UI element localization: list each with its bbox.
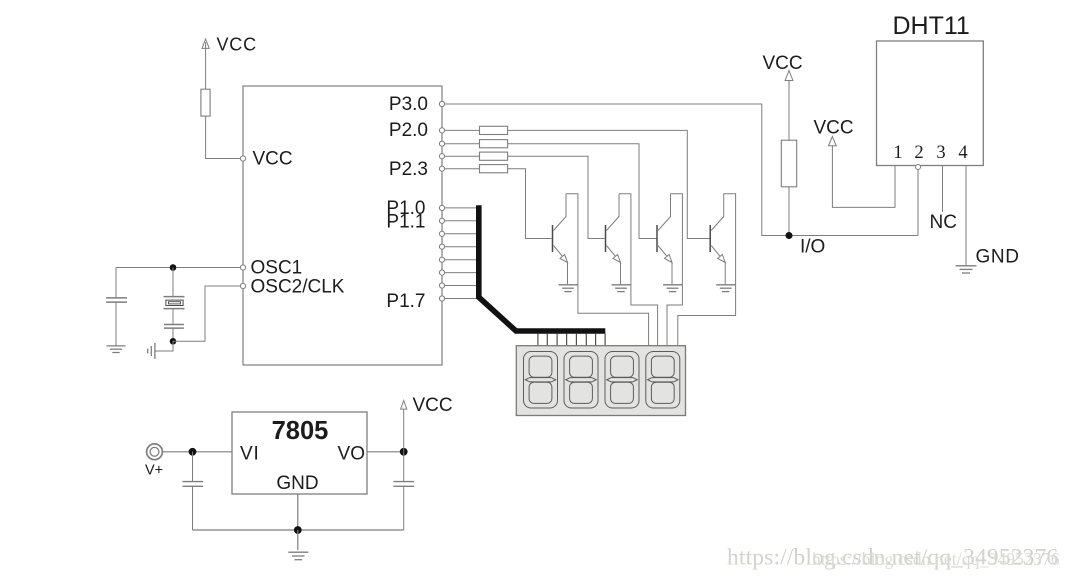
svg-text:V+: V+ — [145, 463, 163, 479]
svg-text:1: 1 — [893, 143, 902, 163]
MCU pin P2.3 — [389, 159, 445, 180]
MCU pin OSC2/CLK — [240, 277, 344, 298]
svg-text:OSC2/CLK: OSC2/CLK — [251, 277, 345, 298]
display digit 3 — [605, 352, 639, 409]
transistor Q1 (NPN) — [553, 194, 568, 285]
7-segment display DS1 body — [516, 346, 685, 416]
svg-text:VCC: VCC — [763, 53, 803, 74]
input terminal V+ — [145, 444, 163, 479]
wire P3.0 to DHT11 data — [445, 104, 919, 236]
MCU U1 (8051) body — [243, 86, 442, 365]
MCU pin P2.2 — [439, 154, 444, 159]
DHT11 pin numbers 1 2 3 4 — [893, 143, 967, 163]
svg-text:NC: NC — [930, 212, 957, 233]
wire GND pin down — [297, 494, 299, 530]
svg-text:4: 4 — [958, 143, 967, 163]
wire DHT11 pin1 to VCC — [832, 146, 895, 208]
power symbol VCC (pull-up) — [763, 53, 803, 140]
wire Q4 collector to display pin — [678, 194, 736, 346]
wire to ground (crystal) — [155, 341, 173, 351]
svg-text:2: 2 — [914, 143, 923, 163]
svg-text:VCC: VCC — [814, 118, 854, 139]
ground (Q4 emitter) — [716, 285, 735, 292]
MCU pin OSC1 — [240, 258, 302, 279]
svg-text:OSC1: OSC1 — [251, 258, 303, 279]
bottom ground rail — [193, 529, 404, 531]
svg-text:P2.0: P2.0 — [389, 120, 428, 141]
node junction (VO net) — [400, 448, 408, 456]
resistor R3 — [480, 140, 508, 148]
transistor Q3 (NPN) — [657, 194, 672, 285]
MCU pin P2.0 — [389, 120, 445, 141]
svg-text:P1.1: P1.1 — [386, 212, 425, 233]
svg-text:VI: VI — [240, 444, 260, 465]
wires P1 pins to bus — [445, 208, 478, 299]
ground (Q1 emitter) — [559, 285, 578, 292]
power symbol VCC (DHT11 pin1) — [814, 118, 854, 146]
svg-text:DHT11: DHT11 — [893, 12, 970, 40]
resistor R2 — [480, 126, 508, 134]
svg-text:P2.3: P2.3 — [389, 159, 428, 180]
power symbol VCC (regulator output) — [401, 395, 453, 452]
regulator U2 7805 body — [232, 412, 367, 494]
sensor U3 DHT11 body — [877, 12, 984, 166]
wire P2.1 to resistor R3 — [445, 143, 480, 145]
crystal Y1 — [164, 268, 185, 325]
node junction on OSC1 net — [170, 264, 177, 271]
wire R3 to transistor base — [508, 144, 657, 239]
bus breakout wires to display segment pins — [538, 334, 605, 346]
MCU pin P3.0 — [389, 94, 445, 115]
ground (C1) — [107, 346, 126, 353]
node junction (ground rail) — [294, 526, 302, 534]
svg-text:VCC: VCC — [217, 35, 257, 55]
ground (regulator) — [288, 530, 308, 560]
MCU pin VCC — [240, 149, 292, 170]
svg-text:P1.7: P1.7 — [386, 291, 425, 312]
node junction below crystal — [170, 338, 177, 345]
svg-text:P3.0: P3.0 — [389, 94, 428, 115]
node junction (VI net) — [189, 448, 197, 456]
svg-text:I/O: I/O — [800, 237, 825, 258]
ground (DHT11 pin4) — [956, 266, 977, 273]
capacitor C1 — [106, 268, 127, 346]
wire VO to VCC node — [367, 451, 404, 453]
wire P2.3 to resistor R5 — [445, 168, 480, 170]
wire OSC1 net — [116, 267, 240, 269]
resistor R4 — [480, 152, 508, 160]
MCU pin P2.1 — [439, 141, 444, 146]
svg-text:VO: VO — [338, 444, 365, 465]
wire V+ to VI — [162, 451, 232, 453]
svg-text:https://blog.csdn.net/qq_34952: https://blog.csdn.net/qq_34952376 — [812, 549, 1060, 569]
display digit 1 — [524, 352, 558, 409]
transistor Q4 (NPN) — [710, 194, 725, 285]
resistor R6 (DHT11 pull-up) — [781, 140, 796, 235]
wire P2.0 to resistor R2 — [445, 129, 480, 131]
ground (Q2 emitter) — [612, 285, 631, 292]
capacitor C3 (input) — [182, 452, 203, 530]
resistor R5 — [480, 165, 508, 173]
power symbol VCC (top-left) — [202, 35, 257, 90]
wire R5 to transistor base — [508, 169, 552, 239]
DHT11 pin4 to ground — [966, 166, 1020, 268]
node I/O — [786, 232, 826, 258]
ground (crystal, left-facing) — [148, 343, 155, 359]
bus (thick) P1 to display — [479, 205, 606, 331]
DHT11 pin2 (data) — [916, 165, 921, 236]
display digit 4 — [646, 352, 680, 409]
watermark text — [727, 545, 1060, 571]
svg-text:VCC: VCC — [413, 395, 453, 416]
svg-text:7805: 7805 — [272, 417, 329, 445]
MCU port P1.0-P1.7 pins — [386, 198, 444, 312]
transistor Q2 (NPN) — [606, 194, 621, 285]
svg-text:GND: GND — [976, 247, 1020, 268]
capacitor C2 — [164, 325, 184, 342]
wire R2 to transistor base — [508, 130, 710, 238]
wire Q3 collector to display pin — [667, 194, 682, 346]
wire Q1 collector to display pin — [566, 194, 649, 346]
wire Q2 collector to display pin — [619, 194, 658, 346]
svg-text:3: 3 — [936, 143, 945, 163]
wire P2.2 to resistor R4 — [445, 155, 480, 157]
svg-text:VCC: VCC — [253, 149, 293, 170]
capacitor C4 (output) — [393, 452, 414, 530]
wire R1 to MCU VCC pin — [206, 116, 241, 158]
resistor R1 (VCC series) — [201, 89, 210, 116]
wire R4 to transistor base — [508, 156, 605, 238]
ground (Q3 emitter) — [663, 285, 682, 292]
svg-text:GND: GND — [276, 473, 318, 494]
DHT11 pin3 NC — [930, 166, 957, 234]
display digit 2 — [564, 352, 598, 409]
wire crystal to OSC2 — [173, 286, 240, 341]
